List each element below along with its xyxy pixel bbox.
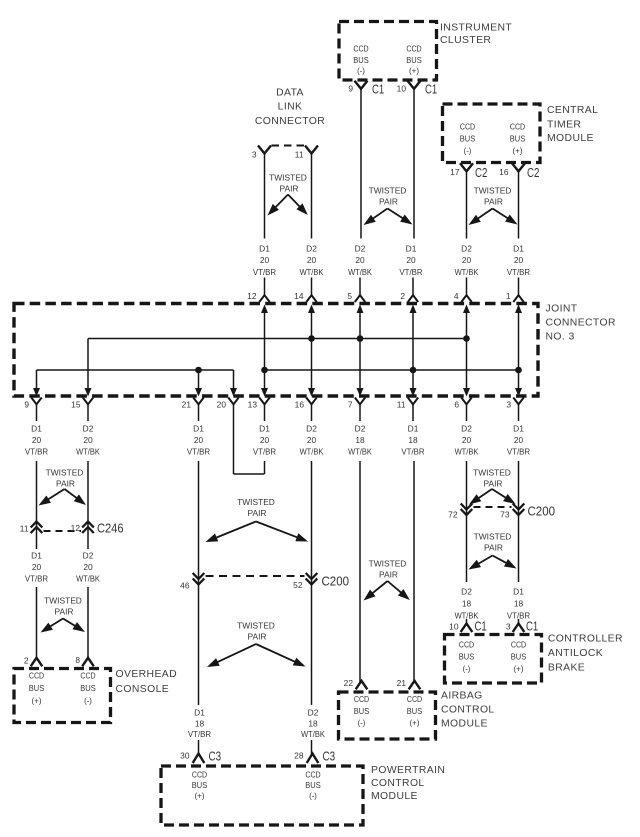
svg-text:BUS: BUS <box>353 55 369 65</box>
svg-text:3: 3 <box>252 150 257 160</box>
svg-text:20: 20 <box>355 255 365 265</box>
svg-text:BUS: BUS <box>407 706 423 716</box>
svg-text:21: 21 <box>182 400 192 410</box>
svg-text:(-): (-) <box>357 66 365 76</box>
svg-text:WT/BK: WT/BK <box>300 447 324 457</box>
svg-text:20: 20 <box>462 255 472 265</box>
svg-text:CONTROLLER: CONTROLLER <box>548 634 623 645</box>
svg-text:WT/BK: WT/BK <box>300 267 324 277</box>
svg-text:C1: C1 <box>526 620 538 634</box>
svg-text:20: 20 <box>217 400 227 410</box>
svg-text:73: 73 <box>500 509 510 519</box>
svg-text:D2: D2 <box>355 243 366 253</box>
svg-text:16: 16 <box>295 400 305 410</box>
svg-text:18: 18 <box>308 718 318 728</box>
svg-text:(+): (+) <box>409 66 419 76</box>
svg-text:(+): (+) <box>410 718 420 728</box>
svg-text:12: 12 <box>247 291 257 301</box>
svg-text:VT/BR: VT/BR <box>25 574 48 584</box>
svg-text:TWISTED: TWISTED <box>369 559 407 569</box>
svg-text:CCD: CCD <box>192 770 207 780</box>
svg-text:D1: D1 <box>406 243 417 253</box>
svg-text:C1: C1 <box>475 620 487 634</box>
svg-text:INSTRUMENT: INSTRUMENT <box>440 23 512 34</box>
svg-text:TWISTED: TWISTED <box>473 468 511 478</box>
svg-text:D1: D1 <box>31 424 42 434</box>
svg-text:C1: C1 <box>372 82 384 96</box>
svg-text:VT/BR: VT/BR <box>187 447 210 457</box>
svg-text:CONTROL: CONTROL <box>441 705 495 716</box>
svg-text:POWERTRAIN: POWERTRAIN <box>371 765 445 776</box>
svg-text:CENTRAL: CENTRAL <box>547 105 598 116</box>
svg-text:CCD: CCD <box>406 43 421 53</box>
svg-text:PAIR: PAIR <box>248 632 267 642</box>
svg-text:CCD: CCD <box>407 694 422 704</box>
svg-text:C1: C1 <box>425 82 437 96</box>
svg-text:6: 6 <box>454 400 459 410</box>
svg-text:D1: D1 <box>194 708 205 718</box>
svg-text:CCD: CCD <box>305 770 320 780</box>
svg-text:11: 11 <box>397 400 406 410</box>
svg-text:20: 20 <box>83 435 93 445</box>
svg-text:CCD: CCD <box>510 122 525 132</box>
svg-text:52: 52 <box>293 580 303 590</box>
svg-text:CCD: CCD <box>353 43 368 53</box>
svg-text:7: 7 <box>348 400 353 410</box>
svg-text:VT/BR: VT/BR <box>188 729 211 739</box>
svg-text:MODULE: MODULE <box>371 791 418 802</box>
svg-text:VT/BR: VT/BR <box>25 447 48 457</box>
svg-text:21: 21 <box>397 678 407 688</box>
svg-text:PAIR: PAIR <box>55 607 74 617</box>
svg-text:OVERHEAD: OVERHEAD <box>116 669 178 680</box>
svg-text:CONSOLE: CONSOLE <box>116 684 170 695</box>
svg-text:3: 3 <box>506 622 511 632</box>
svg-text:D2: D2 <box>461 586 472 596</box>
svg-text:16: 16 <box>499 167 509 177</box>
svg-text:D1: D1 <box>408 424 419 434</box>
svg-text:(-): (-) <box>464 145 472 155</box>
svg-text:(-): (-) <box>463 664 471 674</box>
svg-text:VT/BR: VT/BR <box>507 447 530 457</box>
svg-text:BUS: BUS <box>406 55 422 65</box>
svg-text:18: 18 <box>408 435 418 445</box>
svg-text:C2: C2 <box>527 166 539 180</box>
svg-text:(-): (-) <box>309 791 317 801</box>
svg-text:C3: C3 <box>323 750 336 764</box>
svg-text:VT/BR: VT/BR <box>253 447 276 457</box>
svg-text:2: 2 <box>24 656 29 666</box>
svg-text:BUS: BUS <box>80 683 96 693</box>
svg-text:12: 12 <box>71 523 81 533</box>
svg-text:20: 20 <box>32 562 42 572</box>
svg-text:TWISTED: TWISTED <box>474 532 512 542</box>
svg-text:PAIR: PAIR <box>484 543 503 553</box>
svg-text:(+): (+) <box>513 145 523 155</box>
svg-text:CCD: CCD <box>354 694 369 704</box>
svg-text:WT/BK: WT/BK <box>455 447 479 457</box>
svg-text:TWISTED: TWISTED <box>46 468 84 478</box>
svg-text:46: 46 <box>180 581 190 591</box>
svg-text:VT/BR: VT/BR <box>399 267 422 277</box>
svg-text:20: 20 <box>462 435 472 445</box>
svg-text:D2: D2 <box>83 424 94 434</box>
svg-text:TWISTED: TWISTED <box>237 497 275 507</box>
svg-text:CCD: CCD <box>459 640 474 650</box>
svg-text:TWISTED: TWISTED <box>44 596 82 606</box>
svg-text:D1: D1 <box>193 424 204 434</box>
svg-text:20: 20 <box>514 255 524 265</box>
svg-text:WT/BK: WT/BK <box>348 447 372 457</box>
svg-text:CONNECTOR: CONNECTOR <box>255 116 325 127</box>
svg-text:C2: C2 <box>475 166 487 180</box>
svg-text:8: 8 <box>75 655 80 665</box>
svg-text:13: 13 <box>248 400 258 410</box>
svg-text:20: 20 <box>83 562 93 572</box>
svg-text:C3: C3 <box>209 750 222 764</box>
svg-text:BUS: BUS <box>460 134 476 144</box>
svg-text:C200: C200 <box>322 575 350 589</box>
svg-text:(-): (-) <box>84 696 92 706</box>
svg-text:2: 2 <box>400 291 405 301</box>
svg-text:WT/BK: WT/BK <box>348 267 372 277</box>
svg-text:(+): (+) <box>514 664 524 674</box>
svg-text:CCD: CCD <box>80 671 95 681</box>
svg-text:20: 20 <box>307 435 317 445</box>
svg-text:4: 4 <box>454 291 459 301</box>
svg-text:PAIR: PAIR <box>56 479 75 489</box>
svg-text:72: 72 <box>448 509 458 519</box>
svg-text:BRAKE: BRAKE <box>548 663 585 674</box>
svg-text:PAIR: PAIR <box>379 197 398 207</box>
svg-text:D2: D2 <box>306 424 317 434</box>
svg-text:20: 20 <box>406 255 416 265</box>
svg-text:WT/BK: WT/BK <box>301 729 325 739</box>
svg-text:WT/BK: WT/BK <box>455 267 479 277</box>
svg-text:D2: D2 <box>83 551 94 561</box>
svg-text:CCD: CCD <box>511 640 526 650</box>
svg-text:PAIR: PAIR <box>484 479 503 489</box>
svg-text:9: 9 <box>348 83 353 93</box>
svg-text:18: 18 <box>462 598 472 608</box>
svg-text:PAIR: PAIR <box>248 508 267 518</box>
svg-text:20: 20 <box>514 435 524 445</box>
svg-text:D1: D1 <box>513 243 524 253</box>
svg-text:5: 5 <box>347 291 352 301</box>
svg-text:CONNECTOR: CONNECTOR <box>546 318 616 329</box>
svg-text:LINK: LINK <box>278 102 303 113</box>
svg-text:CCD: CCD <box>29 671 44 681</box>
svg-text:18: 18 <box>355 435 365 445</box>
svg-text:30: 30 <box>180 751 190 761</box>
svg-text:9: 9 <box>24 400 29 410</box>
svg-text:BUS: BUS <box>29 683 45 693</box>
svg-text:14: 14 <box>294 291 304 301</box>
svg-text:20: 20 <box>194 435 204 445</box>
svg-text:20: 20 <box>260 255 270 265</box>
svg-text:ANTILOCK: ANTILOCK <box>548 648 603 659</box>
svg-text:C246: C246 <box>97 522 124 536</box>
svg-text:VT/BR: VT/BR <box>507 267 530 277</box>
svg-text:C200: C200 <box>528 504 556 518</box>
svg-text:AIRBAG: AIRBAG <box>441 691 483 702</box>
svg-text:TIMER: TIMER <box>547 120 581 131</box>
svg-text:(+): (+) <box>32 696 42 706</box>
svg-text:D1: D1 <box>259 424 270 434</box>
svg-text:10: 10 <box>449 622 459 632</box>
svg-text:BUS: BUS <box>305 780 321 790</box>
svg-text:BUS: BUS <box>354 706 370 716</box>
svg-text:BUS: BUS <box>511 652 527 662</box>
svg-text:TWISTED: TWISTED <box>269 173 307 183</box>
svg-text:D1: D1 <box>513 586 524 596</box>
svg-text:D2: D2 <box>461 243 472 253</box>
svg-text:22: 22 <box>344 678 354 688</box>
svg-text:D2: D2 <box>306 243 317 253</box>
svg-text:BUS: BUS <box>510 134 526 144</box>
svg-text:18: 18 <box>195 718 205 728</box>
svg-text:MODULE: MODULE <box>441 718 488 729</box>
svg-text:11: 11 <box>295 150 304 160</box>
svg-text:TWISTED: TWISTED <box>474 186 512 196</box>
svg-text:PAIR: PAIR <box>484 197 503 207</box>
svg-text:DATA: DATA <box>276 88 304 99</box>
svg-text:D2: D2 <box>461 424 472 434</box>
svg-text:10: 10 <box>397 83 407 93</box>
svg-text:D1: D1 <box>259 243 270 253</box>
svg-text:VT/BR: VT/BR <box>401 447 424 457</box>
svg-text:11: 11 <box>20 524 29 534</box>
svg-text:TWISTED: TWISTED <box>237 621 275 631</box>
svg-text:JOINT: JOINT <box>546 304 578 315</box>
svg-text:PAIR: PAIR <box>379 570 398 580</box>
svg-text:(+): (+) <box>195 791 205 801</box>
svg-text:MODULE: MODULE <box>547 133 594 144</box>
svg-text:PAIR: PAIR <box>280 184 299 194</box>
svg-text:20: 20 <box>32 435 42 445</box>
svg-text:CONTROL: CONTROL <box>371 778 425 789</box>
svg-text:17: 17 <box>450 167 460 177</box>
svg-text:CCD: CCD <box>460 122 475 132</box>
svg-text:20: 20 <box>260 435 270 445</box>
svg-text:18: 18 <box>514 598 524 608</box>
svg-text:VT/BR: VT/BR <box>253 267 276 277</box>
svg-text:1: 1 <box>506 291 511 301</box>
svg-text:(-): (-) <box>358 718 366 728</box>
svg-text:WT/BK: WT/BK <box>76 447 100 457</box>
svg-text:D1: D1 <box>513 424 524 434</box>
svg-text:BUS: BUS <box>459 652 475 662</box>
svg-text:TWISTED: TWISTED <box>369 186 407 196</box>
svg-text:NO. 3: NO. 3 <box>546 331 575 342</box>
svg-text:BUS: BUS <box>192 780 208 790</box>
svg-text:CLUSTER: CLUSTER <box>440 35 491 46</box>
svg-text:15: 15 <box>71 400 81 410</box>
svg-text:D1: D1 <box>31 551 42 561</box>
svg-text:D2: D2 <box>308 708 319 718</box>
svg-text:WT/BK: WT/BK <box>76 574 100 584</box>
svg-text:20: 20 <box>307 255 317 265</box>
svg-text:3: 3 <box>506 400 511 410</box>
svg-text:D2: D2 <box>355 424 366 434</box>
svg-text:28: 28 <box>294 751 304 761</box>
